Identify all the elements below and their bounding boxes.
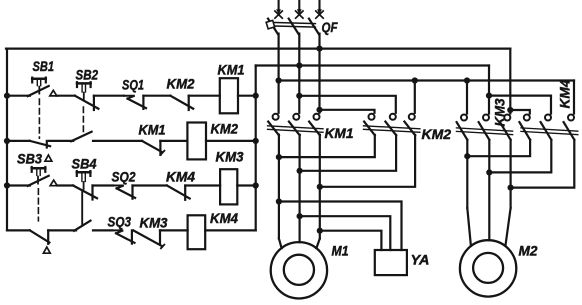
svg-text:M2: M2 <box>519 243 538 259</box>
svg-text:KM3: KM3 <box>216 148 244 164</box>
svg-text:SB2: SB2 <box>76 67 99 83</box>
svg-text:KM4: KM4 <box>557 79 573 108</box>
svg-text:YA: YA <box>411 252 430 268</box>
svg-text:SB4: SB4 <box>72 155 97 171</box>
svg-text:SQ2: SQ2 <box>112 169 136 185</box>
svg-text:QF: QF <box>322 19 338 35</box>
svg-text:SB1: SB1 <box>33 58 55 74</box>
svg-text:KM1: KM1 <box>218 62 245 78</box>
svg-text:KM1: KM1 <box>325 125 354 141</box>
svg-text:KM3: KM3 <box>491 98 507 126</box>
svg-text:M1: M1 <box>332 242 349 258</box>
svg-text:KM4: KM4 <box>166 169 195 185</box>
svg-text:KM2: KM2 <box>422 126 452 142</box>
svg-text:KM2: KM2 <box>167 75 195 91</box>
svg-text:SQ1: SQ1 <box>122 76 144 92</box>
svg-text:KM3: KM3 <box>140 215 168 231</box>
svg-text:KM1: KM1 <box>139 122 166 138</box>
svg-text:KM4: KM4 <box>210 210 238 226</box>
svg-text:SB3: SB3 <box>17 151 42 167</box>
svg-text:SQ3: SQ3 <box>108 214 132 230</box>
svg-text:KM2: KM2 <box>211 121 239 137</box>
